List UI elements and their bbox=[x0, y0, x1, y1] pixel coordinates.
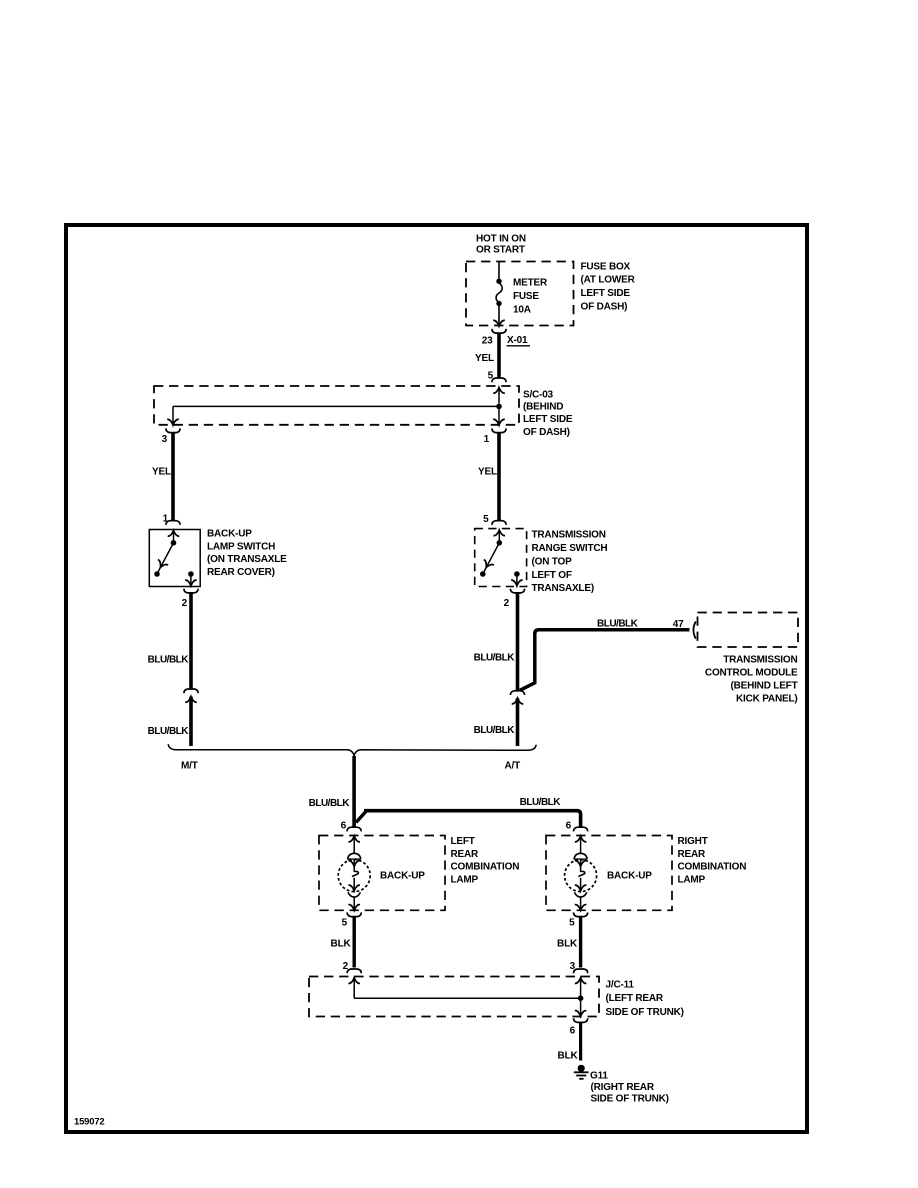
svg-text:(AT LOWER: (AT LOWER bbox=[581, 275, 636, 286]
label LEFT REAR COMBINATION LAMP bbox=[451, 836, 520, 885]
node splice dot bbox=[496, 404, 502, 410]
svg-text:2: 2 bbox=[343, 961, 349, 972]
wire BLU/BLK A/T lower bbox=[516, 698, 520, 746]
svg-text:YEL: YEL bbox=[152, 466, 171, 477]
svg-text:5: 5 bbox=[342, 917, 348, 928]
svg-text:BLK: BLK bbox=[557, 938, 578, 949]
svg-text:6: 6 bbox=[570, 1025, 576, 1036]
node junction dot bbox=[578, 995, 584, 1001]
connector cup TCM bbox=[693, 622, 695, 639]
svg-text:LEFT SIDE: LEFT SIDE bbox=[523, 414, 573, 425]
connector skirt right lamp bbox=[574, 827, 588, 831]
svg-text:(BEHIND: (BEHIND bbox=[523, 402, 563, 413]
svg-text:BLK: BLK bbox=[331, 938, 352, 949]
svg-text:COMBINATION: COMBINATION bbox=[451, 862, 520, 873]
switch internal arrow up bbox=[168, 531, 180, 541]
svg-text:REAR: REAR bbox=[451, 849, 480, 860]
label METER FUSE 10A bbox=[513, 277, 548, 315]
svg-text:2: 2 bbox=[504, 598, 510, 609]
svg-text:23: 23 bbox=[482, 335, 493, 346]
wire BLU/BLK A/T upper bbox=[516, 593, 520, 691]
svg-text:LAMP: LAMP bbox=[451, 874, 479, 885]
junction box J/C-11 (dashed) bbox=[309, 977, 599, 1017]
svg-text:(ON TRANSAXLE: (ON TRANSAXLE bbox=[207, 554, 287, 565]
label X-01 bbox=[507, 335, 531, 346]
svg-text:OF DASH): OF DASH) bbox=[581, 301, 628, 312]
svg-text:BACK-UP: BACK-UP bbox=[607, 870, 652, 881]
svg-text:LEFT SIDE: LEFT SIDE bbox=[581, 288, 631, 299]
svg-text:SIDE OF TRUNK): SIDE OF TRUNK) bbox=[606, 1007, 684, 1018]
wire BLK to ground bbox=[579, 1022, 582, 1061]
right rear combination lamp box (dashed) bbox=[546, 836, 672, 911]
svg-text:YEL: YEL bbox=[475, 353, 494, 364]
svg-text:BLU/BLK: BLU/BLK bbox=[148, 654, 190, 665]
connector below range switch pin 2 bbox=[510, 589, 524, 593]
wire YEL left bbox=[171, 432, 175, 520]
svg-text:6: 6 bbox=[566, 820, 572, 831]
svg-text:HOT IN ON: HOT IN ON bbox=[476, 233, 526, 244]
connector skirt above J/C-11 pin 2 bbox=[347, 969, 361, 973]
svg-text:(ON TOP: (ON TOP bbox=[532, 556, 573, 567]
svg-text:LAMP SWITCH: LAMP SWITCH bbox=[207, 541, 275, 552]
connector below S/C-03 right bbox=[492, 428, 506, 432]
wire J/C-11 horizontal bbox=[354, 997, 580, 999]
wire branch to TCM bbox=[520, 630, 690, 691]
wire J/C-11 output with down arrow bbox=[575, 998, 587, 1016]
svg-text:(RIGHT REAR: (RIGHT REAR bbox=[591, 1082, 655, 1093]
connector skirt left lamp bbox=[347, 827, 361, 831]
svg-text:BLU/BLK: BLU/BLK bbox=[148, 726, 190, 737]
wire into S/C-03 with up arrow bbox=[493, 388, 505, 404]
svg-text:BLK: BLK bbox=[558, 1050, 579, 1061]
label TRANSMISSION CONTROL MODULE (BEHIND LEFT KICK PANEL) bbox=[705, 655, 798, 705]
wire branch to right lamp bbox=[356, 811, 581, 827]
svg-text:TRANSAXLE): TRANSAXLE) bbox=[532, 583, 594, 594]
switch terminal 2 bbox=[185, 571, 197, 586]
switch lever bbox=[154, 540, 176, 577]
wire merge bracket M/T A/T bbox=[168, 744, 536, 756]
svg-text:METER: METER bbox=[513, 277, 548, 288]
transmission control module box (dashed) bbox=[698, 613, 799, 648]
svg-text:BLU/BLK: BLU/BLK bbox=[309, 798, 351, 809]
svg-text:CONTROL MODULE: CONTROL MODULE bbox=[705, 668, 798, 679]
bulb BACK-UP right bbox=[565, 836, 597, 910]
splice box S/C-03 (dashed) bbox=[154, 386, 519, 425]
svg-text:3: 3 bbox=[570, 961, 576, 972]
connector skirt above range switch pin 5 bbox=[492, 521, 506, 525]
transmission range switch box (dashed) bbox=[475, 529, 527, 587]
svg-text:BLU/BLK: BLU/BLK bbox=[474, 725, 516, 736]
label HOT IN ON / OR START bbox=[476, 233, 526, 255]
svg-text:LAMP: LAMP bbox=[678, 874, 706, 885]
range switch internal arrow up bbox=[494, 530, 506, 540]
fuse METER FUSE 10A bbox=[496, 279, 502, 307]
svg-text:BACK-UP: BACK-UP bbox=[207, 528, 252, 539]
wire YEL right bbox=[497, 432, 501, 520]
svg-text:5: 5 bbox=[483, 514, 489, 525]
svg-text:RANGE SWITCH: RANGE SWITCH bbox=[532, 543, 608, 554]
svg-text:10A: 10A bbox=[513, 304, 531, 315]
svg-text:BLU/BLK: BLU/BLK bbox=[474, 652, 516, 663]
svg-text:SIDE OF TRUNK): SIDE OF TRUNK) bbox=[591, 1093, 669, 1104]
range switch lever bbox=[480, 540, 502, 577]
connector below left lamp pin 5 bbox=[347, 912, 361, 916]
svg-text:COMBINATION: COMBINATION bbox=[678, 862, 747, 873]
wire splice horizontal bbox=[173, 405, 499, 407]
connector X-01 pin 23 bbox=[492, 329, 506, 333]
svg-text:OF DASH): OF DASH) bbox=[523, 427, 570, 438]
wire common BLU/BLK down bbox=[352, 756, 356, 827]
svg-text:6: 6 bbox=[341, 820, 347, 831]
svg-text:(BEHIND LEFT: (BEHIND LEFT bbox=[730, 681, 797, 692]
connector below S/C-03 left bbox=[166, 428, 180, 432]
wire J/C-11 left leg with up arrow bbox=[348, 978, 360, 998]
svg-text:YEL: YEL bbox=[478, 466, 497, 477]
label S/C-03 (BEHIND LEFT SIDE OF DASH) bbox=[523, 389, 573, 438]
svg-text:REAR COVER): REAR COVER) bbox=[207, 567, 275, 578]
ground G11 bbox=[574, 1065, 589, 1079]
connector skirt above J/C-11 pin 3 bbox=[574, 969, 588, 973]
label G11 (RIGHT REAR SIDE OF TRUNK) bbox=[590, 1070, 669, 1104]
label TRANSMISSION RANGE SWITCH (ON TOP LEFT OF TRANSAXLE) bbox=[532, 529, 608, 594]
left rear combination lamp box (dashed) bbox=[319, 836, 445, 911]
label RIGHT REAR COMBINATION LAMP bbox=[678, 836, 747, 885]
connector below switch pin 2 bbox=[184, 589, 198, 593]
svg-text:3: 3 bbox=[162, 434, 168, 445]
wire BLU/BLK M/T lower bbox=[189, 697, 193, 746]
svg-text:LEFT: LEFT bbox=[451, 836, 475, 847]
inline connector M/T bbox=[184, 689, 198, 702]
svg-text:(LEFT REAR: (LEFT REAR bbox=[606, 993, 664, 1004]
connector below J/C-11 pin 6 bbox=[574, 1018, 588, 1022]
svg-text:TRANSMISSION: TRANSMISSION bbox=[723, 655, 797, 666]
connector below right lamp pin 5 bbox=[574, 912, 588, 916]
back-up lamp switch box bbox=[149, 530, 200, 587]
svg-text:OR START: OR START bbox=[476, 245, 525, 256]
fuse box (dashed) bbox=[466, 262, 574, 326]
svg-text:RIGHT: RIGHT bbox=[678, 836, 708, 847]
svg-text:159072: 159072 bbox=[74, 1117, 105, 1128]
svg-text:47: 47 bbox=[673, 619, 684, 630]
wire splice right leg with down arrow bbox=[493, 409, 505, 425]
range switch terminal 2 bbox=[511, 571, 523, 586]
wire splice left leg with down arrow bbox=[167, 406, 179, 425]
svg-text:BACK-UP: BACK-UP bbox=[380, 870, 425, 881]
label BACK-UP LAMP SWITCH (ON TRANSAXLE REAR COVER) bbox=[207, 528, 287, 578]
svg-text:LEFT OF: LEFT OF bbox=[532, 570, 572, 581]
svg-text:BLU/BLK: BLU/BLK bbox=[597, 618, 639, 629]
svg-text:REAR: REAR bbox=[678, 849, 707, 860]
svg-text:KICK PANEL): KICK PANEL) bbox=[736, 694, 798, 705]
svg-text:G11: G11 bbox=[590, 1070, 608, 1081]
svg-text:5: 5 bbox=[569, 917, 575, 928]
connector skirt above S/C-03 bbox=[492, 378, 506, 382]
svg-text:FUSE BOX: FUSE BOX bbox=[581, 261, 631, 272]
svg-text:1: 1 bbox=[484, 434, 490, 445]
svg-text:1: 1 bbox=[163, 514, 169, 525]
svg-text:TRANSMISSION: TRANSMISSION bbox=[532, 529, 606, 540]
svg-text:2: 2 bbox=[182, 598, 188, 609]
label J/C-11 (LEFT REAR SIDE OF TRUNK) bbox=[606, 979, 684, 1018]
connector skirt above switch pin 1 bbox=[166, 521, 180, 525]
border frame bbox=[66, 225, 807, 1132]
svg-text:BLU/BLK: BLU/BLK bbox=[520, 797, 562, 808]
wire fuse feed stub bbox=[498, 262, 500, 280]
wire YEL X-01 to S/C-03 bbox=[497, 333, 501, 379]
svg-text:FUSE: FUSE bbox=[513, 291, 539, 302]
wire J/C-11 right leg with up arrow bbox=[575, 978, 587, 998]
wire fuse output with arrow bbox=[493, 305, 505, 326]
svg-text:J/C-11: J/C-11 bbox=[606, 979, 635, 990]
wire BLK right bbox=[579, 916, 582, 968]
svg-text:A/T: A/T bbox=[505, 760, 521, 771]
label FUSE BOX (AT LOWER LEFT SIDE OF DASH) bbox=[581, 261, 636, 312]
inline connector A/T bbox=[510, 691, 524, 704]
svg-text:X-01: X-01 bbox=[507, 335, 528, 346]
wire BLU/BLK M/T upper bbox=[189, 593, 193, 690]
svg-text:S/C-03: S/C-03 bbox=[523, 389, 554, 400]
bulb BACK-UP left bbox=[338, 836, 370, 910]
wire BLK left bbox=[353, 916, 356, 968]
svg-text:M/T: M/T bbox=[181, 761, 198, 772]
